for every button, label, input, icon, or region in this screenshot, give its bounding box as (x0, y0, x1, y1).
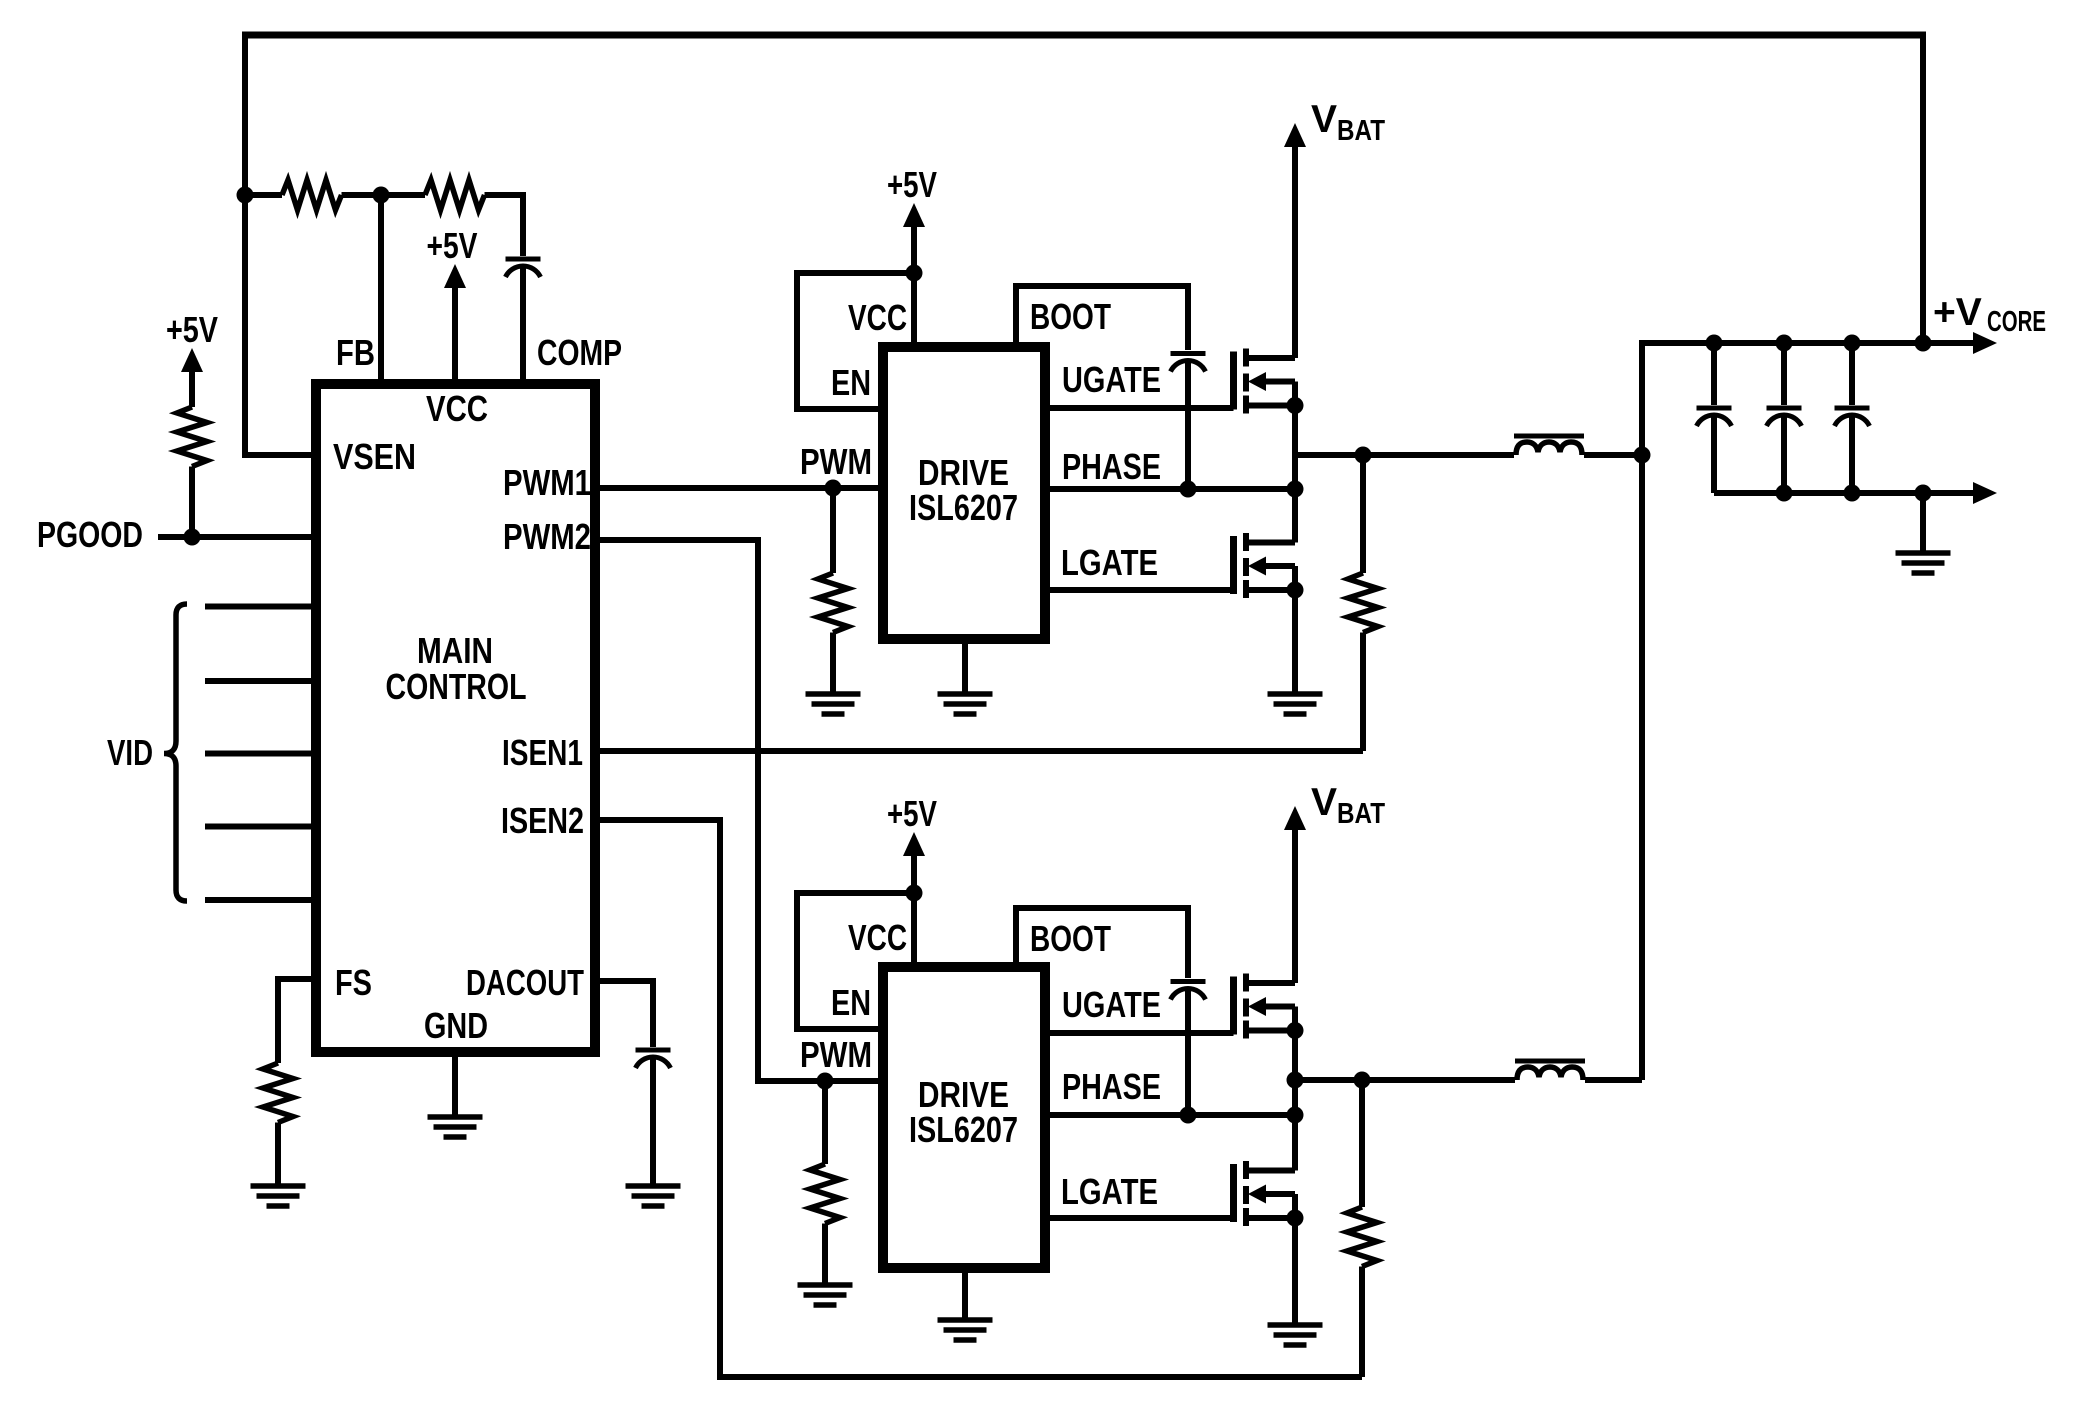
power VBAT arrow (phase 2) (1284, 806, 1306, 830)
resistor R4 FS frequency set (263, 1063, 293, 1123)
IC U2 DRIVE ISL6207 body (883, 347, 1045, 639)
wire output return rail (1714, 490, 1975, 496)
svg-text:+5V: +5V (887, 164, 937, 205)
wire R5 to ground (830, 633, 836, 695)
node junction cap C6 top (1776, 335, 1793, 352)
wire Q3 drain to VBAT arrow (1292, 830, 1298, 983)
svg-text:PGOOD: PGOOD (37, 514, 143, 555)
wire R4 to ground (275, 1123, 281, 1187)
wire R5 top lead (830, 488, 836, 573)
wire C3 bottom to PHASE (1185, 362, 1191, 490)
svg-text:BAT: BAT (1337, 115, 1385, 147)
power +5V arrow (U3 VCC) (903, 832, 925, 856)
wire R1 leads (245, 192, 381, 198)
node junction L1 output (1634, 447, 1651, 464)
resistor R6 PWM2 pulldown (810, 1164, 840, 1224)
IC U1 MAIN CONTROL body (316, 384, 595, 1052)
wire U3 GND stem (962, 1263, 968, 1320)
svg-text:+V: +V (1933, 291, 1982, 334)
wire Q1 drain to VBAT arrow (1292, 147, 1298, 358)
svg-text:BAT: BAT (1337, 798, 1385, 830)
wire R6 to ground (822, 1224, 828, 1286)
wire top feedback from VCORE to VSEN divider (245, 32, 1923, 39)
wire U2 BOOT loop (1016, 286, 1188, 350)
node junction return-ground (1915, 485, 1932, 502)
resistor R7 ISEN1 sense (1348, 573, 1378, 633)
capacitor C3 bootstrap (U2) (1171, 354, 1206, 372)
inductor L2 coil (1517, 1067, 1583, 1080)
wire VCORE vertical and output rail (1642, 343, 1975, 1080)
svg-text:ISEN1: ISEN1 (502, 732, 583, 773)
wire C4 bottom to PHASE (1185, 990, 1191, 1116)
capacitor C2 DACOUT (636, 1050, 671, 1068)
node junction PWM1 pulldown (825, 480, 842, 497)
wire C5 leads (1711, 343, 1717, 493)
node junction cap C5 top (1706, 335, 1723, 352)
wire U2 GND stem (962, 639, 968, 694)
node junction feedback takeoff (1915, 335, 1932, 352)
wire PWM1 from main control to driver U2 (595, 485, 878, 491)
svg-text:LGATE: LGATE (1061, 542, 1158, 583)
resistor R8 ISEN2 sense (1347, 1207, 1377, 1267)
node junction C4-PHASE (1180, 1107, 1197, 1124)
svg-text:+5V: +5V (166, 309, 218, 350)
ground main control GND (428, 1117, 483, 1137)
node junction feedback-left (237, 187, 254, 204)
wire VID line 5 (205, 897, 311, 903)
resistor R2 (FB to COMP) (425, 180, 485, 210)
ground U2 GND (938, 694, 993, 714)
wire Q2 source to ground (1292, 590, 1298, 694)
wire DACOUT to cap (595, 981, 653, 1047)
wire PWM2 route from main control down to driver U3 (595, 540, 878, 1081)
svg-text:DACOUT: DACOUT (466, 962, 584, 1003)
wire U3 BOOT loop (1016, 908, 1188, 978)
svg-text:FB: FB (336, 332, 375, 373)
node junction PHASE2 switch node (1287, 1107, 1304, 1124)
wire LGATE to Q4 gate (1045, 1215, 1234, 1221)
svg-text:+5V: +5V (427, 225, 478, 266)
svg-text:VCC: VCC (426, 388, 488, 429)
brace VID bracket (164, 604, 187, 901)
svg-text:LGATE: LGATE (1061, 1171, 1158, 1212)
wire VID line 2 (205, 678, 311, 684)
wire VID line 4 (205, 824, 311, 830)
wire UGATE to Q1 gate (1045, 405, 1234, 411)
svg-text:EN: EN (831, 982, 871, 1023)
wire switch node vertical Q1 source to Q2 drain (1292, 406, 1298, 543)
wire FS pin to resistor (278, 979, 311, 1063)
ground FS resistor (251, 1186, 306, 1206)
wire L1 to VCORE node (1584, 452, 1642, 458)
wire switch node vertical Q3 source to Q4 drain (1292, 1031, 1298, 1171)
power +5V arrow (U2 VCC) (903, 203, 925, 227)
power +5V arrow (main VCC) (444, 264, 466, 288)
svg-text:FS: FS (335, 962, 372, 1003)
node junction PWM2 pulldown (817, 1073, 834, 1090)
power +5V arrow (PGOOD pull-up) (181, 348, 203, 372)
wire GND pin stem (452, 1052, 458, 1117)
node junction phase2 vertical (1287, 1072, 1304, 1089)
svg-text:GND: GND (424, 1005, 488, 1046)
wire U2 +5V stem (911, 225, 917, 273)
svg-text:PHASE: PHASE (1062, 446, 1161, 487)
svg-text:PWM2: PWM2 (503, 516, 591, 557)
wire U3 VCC pin stem (911, 893, 917, 967)
svg-text:UGATE: UGATE (1062, 984, 1161, 1025)
node junction phase1-sense (1355, 447, 1372, 464)
wire sense R8 top lead (1359, 1080, 1365, 1207)
ground output return (1896, 553, 1951, 573)
resistor R3 PGOOD pull-up (177, 407, 207, 467)
IC U3 DRIVE ISL6207 body (883, 967, 1045, 1268)
capacitor C7 output (1835, 408, 1870, 426)
wire C7 leads (1849, 343, 1855, 493)
svg-text:MAIN: MAIN (417, 630, 493, 671)
ground Q2 source (1268, 694, 1323, 714)
wire feedback left drop to VSEN pin (245, 32, 311, 456)
node junction cap C7 top (1844, 335, 1861, 352)
svg-text:PWM: PWM (800, 1034, 872, 1075)
wire R8 bottom to ISEN2 line (1359, 1267, 1365, 1378)
ground DACOUT cap (626, 1186, 681, 1206)
svg-text:VID: VID (107, 732, 153, 773)
svg-text:ISL6207: ISL6207 (909, 1109, 1018, 1150)
wire feedback right drop to VCORE rail (1920, 32, 1926, 344)
svg-text:PWM1: PWM1 (503, 462, 591, 503)
wire U2 VCC pin stem (911, 273, 917, 347)
inductor L1 coil (1516, 442, 1582, 455)
wire PGOOD to chip (158, 534, 311, 540)
capacitor C6 output (1767, 408, 1802, 426)
ground U3 GND (938, 1320, 993, 1340)
capacitor C1 compensation (506, 259, 541, 277)
wire C6 leads (1781, 343, 1787, 493)
node junction Q4 source (1287, 1210, 1304, 1227)
node junction C6 bottom (1776, 485, 1793, 502)
transistor Q3 upper MOSFET phase 2 (1234, 974, 1296, 1039)
wire pull-up arrow stem (189, 370, 195, 407)
node junction U2 VCC (906, 265, 923, 282)
wire phase1 node to inductor (1295, 452, 1514, 458)
wire R2 leads and corner to COMP cap (381, 195, 523, 256)
wire U3 EN loop (797, 893, 914, 1029)
svg-text:PWM: PWM (800, 441, 872, 482)
node junction C7 bottom (1844, 485, 1861, 502)
wire PHASE to switch node (1045, 486, 1295, 492)
svg-text:VCC: VCC (848, 917, 907, 958)
wire LGATE to Q2 gate (1045, 587, 1234, 593)
wire C1 bottom to COMP pin (520, 267, 526, 379)
wire UGATE to Q3 gate (1045, 1030, 1234, 1036)
svg-text:V: V (1311, 781, 1337, 824)
arrow VCORE output (1973, 332, 1997, 354)
ground R5 (806, 694, 861, 714)
svg-text:COMP: COMP (537, 332, 622, 373)
wire U2 EN loop (797, 273, 914, 409)
wire VID line 3 (205, 751, 311, 757)
wire PHASE to switch node phase 2 (1045, 1112, 1295, 1118)
ground Q4 source (1268, 1325, 1323, 1345)
arrow output return (1973, 482, 1997, 504)
svg-text:+5V: +5V (887, 793, 937, 834)
svg-text:BOOT: BOOT (1030, 296, 1111, 337)
inductor L2 core bar (1515, 1059, 1585, 1064)
node junction Q2 source (1287, 582, 1304, 599)
svg-text:VSEN: VSEN (333, 436, 416, 477)
wire phase2 node to inductor (1295, 1077, 1515, 1083)
capacitor C4 bootstrap (U3) (1171, 982, 1206, 1000)
svg-text:ISL6207: ISL6207 (909, 487, 1018, 528)
node junction PGOOD (184, 529, 201, 546)
wire sense R7 top lead (1360, 455, 1366, 573)
svg-text:UGATE: UGATE (1062, 359, 1161, 400)
ground R6 (798, 1285, 853, 1305)
svg-text:ISEN2: ISEN2 (501, 800, 584, 841)
transistor Q4 lower MOSFET phase 2 (1234, 1161, 1296, 1226)
node junction phase2-sense (1354, 1072, 1371, 1089)
wire VID line 1 (205, 604, 311, 610)
node junction U3 VCC (906, 885, 923, 902)
wire ISEN2 route from main control (595, 820, 1362, 1377)
resistor R5 PWM1 pulldown (818, 573, 848, 633)
node junction C3-PHASE (1180, 481, 1197, 498)
transistor Q2 lower MOSFET phase 1 (1234, 533, 1296, 598)
svg-text:BOOT: BOOT (1030, 918, 1111, 959)
node junction PHASE switch node (1287, 481, 1304, 498)
svg-text:EN: EN (831, 362, 871, 403)
svg-text:CORE: CORE (1987, 306, 2046, 338)
wire R6 top lead (822, 1081, 828, 1164)
svg-text:PHASE: PHASE (1062, 1066, 1161, 1107)
node junction Q3 source (1287, 1022, 1304, 1039)
transistor Q1 upper MOSFET phase 1 (1234, 349, 1296, 414)
wire U3 +5V stem (911, 854, 917, 893)
wire return ground stem (1920, 493, 1926, 553)
wire L2 to VCORE vertical (1585, 1077, 1642, 1083)
inductor L1 core bar (1514, 434, 1584, 439)
capacitor C5 output (1697, 408, 1732, 426)
wire C2 bottom to ground (650, 1058, 656, 1186)
svg-text:V: V (1311, 98, 1337, 141)
wire R7 bottom to ISEN1 line (1360, 633, 1366, 752)
svg-text:CONTROL: CONTROL (386, 666, 527, 707)
wire FB pin drop (378, 195, 384, 379)
wire VCC pin stem (452, 286, 458, 379)
resistor R1 (VSEN to FB) (282, 180, 342, 210)
svg-text:VCC: VCC (848, 297, 907, 338)
node junction Q1 source (1287, 397, 1304, 414)
node junction FB (373, 187, 390, 204)
wire Q4 source to ground (1292, 1218, 1298, 1325)
power VBAT arrow (phase 1) (1284, 123, 1306, 147)
wire ISEN1 from main control (595, 748, 1363, 754)
wire R3 to PGOOD node (189, 467, 195, 538)
